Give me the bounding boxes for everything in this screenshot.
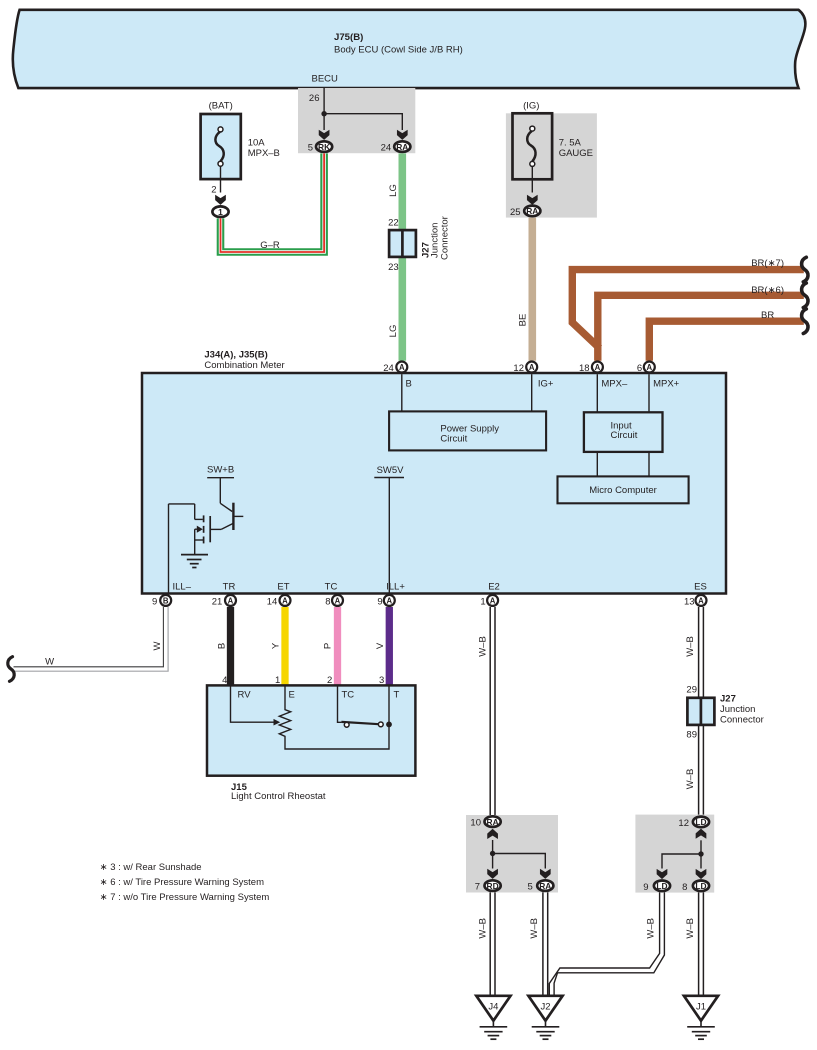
svg-text:10A: 10A: [248, 138, 266, 149]
connector LD 8: [693, 881, 709, 892]
pin 7 label: [475, 882, 480, 893]
wire source to ground: [194, 529, 196, 554]
label Body ECU (Cowl Side J/B RH): [334, 45, 463, 56]
label LG upper: [388, 184, 399, 197]
node ET label: [277, 582, 289, 593]
label Power Supply Circuit: [440, 424, 499, 445]
pin 23 label: [388, 262, 399, 273]
break squiggle BR(*7): [802, 257, 808, 282]
wire W-B from ES upper: [699, 607, 704, 698]
connector RD 7: [485, 880, 501, 891]
junction dot: [321, 111, 326, 116]
pin 13 A: [696, 595, 707, 606]
wire LG: [398, 153, 406, 360]
mosfet Q2 body arrow: [195, 526, 203, 533]
svg-text:6: 6: [637, 363, 642, 374]
pin 4 label: [222, 675, 227, 686]
svg-text:24: 24: [383, 363, 394, 374]
svg-text:TR: TR: [223, 582, 236, 593]
pin 18 meter label: [579, 363, 590, 374]
svg-text:W–B: W–B: [685, 636, 696, 657]
wire W: [14, 607, 169, 671]
svg-text:A: A: [386, 596, 392, 605]
svg-text:Body ECU (Cowl Side J/B RH): Body ECU (Cowl Side J/B RH): [334, 45, 463, 56]
svg-text:J34(A), J35(B): J34(A), J35(B): [204, 349, 267, 360]
wire collector: [220, 477, 232, 512]
svg-text:BR(∗6): BR(∗6): [751, 285, 784, 296]
ground internal: [181, 555, 208, 568]
pin 8b label: [682, 882, 687, 893]
wire T internal: [388, 685, 390, 724]
svg-text:Connector: Connector: [720, 714, 764, 725]
fuse element IG: [527, 126, 535, 166]
wire ILL-: [168, 504, 170, 594]
note *3: [100, 862, 202, 873]
wire RA10 to dot: [492, 840, 494, 869]
svg-text:1: 1: [218, 207, 223, 217]
svg-text:5: 5: [308, 143, 313, 154]
break squiggle BR(*6): [802, 283, 808, 308]
mosfet Q2 drain stub: [195, 504, 203, 520]
pin 1 A: [487, 595, 498, 606]
mosfet Q2 source stub: [195, 539, 204, 541]
svg-text:LG: LG: [388, 325, 399, 338]
wire IG+ to power supply: [531, 374, 533, 411]
SW5V rail: [374, 477, 404, 479]
pin 14 A: [280, 595, 291, 606]
svg-text:Combination Meter: Combination Meter: [204, 360, 284, 371]
wire branch to RA 5: [493, 854, 546, 869]
svg-text:B: B: [406, 378, 412, 389]
svg-text:W–B: W–B: [478, 918, 489, 939]
label Combination Meter: [204, 360, 284, 371]
svg-text:1: 1: [480, 596, 485, 607]
label W-B j1: [685, 918, 696, 939]
arrow into RK: [319, 130, 330, 140]
pin 1 J15 label: [275, 675, 280, 686]
ground J2: [528, 996, 562, 1039]
svg-text:RD: RD: [487, 881, 499, 891]
svg-text:8: 8: [682, 882, 687, 893]
svg-text:A: A: [399, 363, 405, 372]
label G-R: [260, 240, 280, 251]
pin 9b label: [377, 596, 382, 607]
pin 18 A: [592, 362, 603, 373]
pin 26: [309, 93, 320, 104]
svg-text:12: 12: [513, 363, 524, 374]
pin 21 A: [225, 595, 236, 606]
svg-text:IG+: IG+: [538, 378, 554, 389]
pin 21 label: [212, 596, 223, 607]
svg-text:ILL–: ILL–: [173, 582, 192, 593]
pin 14 label: [267, 596, 278, 607]
svg-text:BR: BR: [761, 310, 774, 321]
pin 9c label: [643, 882, 648, 893]
fuse element: [215, 127, 223, 166]
break squiggle W: [8, 657, 14, 682]
svg-text:Circuit: Circuit: [440, 434, 467, 445]
wire BE: [528, 218, 536, 361]
svg-text:MPX–: MPX–: [601, 378, 628, 389]
label J27: [421, 242, 432, 258]
arrow into connector 1: [215, 195, 226, 205]
wire B to power supply: [401, 374, 403, 411]
label W horizontal: [45, 656, 54, 667]
label (IG): [523, 101, 539, 112]
micro computer box: [558, 476, 689, 503]
arrow into RA 25: [527, 195, 538, 205]
label W vertical: [152, 641, 163, 650]
label BR: [761, 310, 774, 321]
wire B black: [227, 607, 234, 685]
label W-B es2: [685, 769, 696, 790]
svg-text:RA: RA: [526, 206, 538, 216]
wire ILL- to mosfet: [169, 503, 195, 505]
pin 24 label: [381, 143, 392, 154]
svg-text:W–B: W–B: [685, 918, 696, 939]
svg-text:9: 9: [377, 596, 382, 607]
svg-text:Y: Y: [270, 642, 281, 649]
svg-text:Circuit: Circuit: [611, 430, 638, 441]
pin 2 label: [211, 185, 216, 196]
pin 89 label: [686, 730, 697, 741]
node ES label: [694, 582, 707, 593]
label Input Circuit: [611, 421, 638, 442]
svg-text:W: W: [45, 656, 54, 667]
node TR label: [223, 582, 236, 593]
wire RV internal: [231, 685, 274, 722]
wire BR(*7): [572, 270, 804, 349]
connector 1: [212, 206, 228, 217]
connector RA 25: [524, 206, 540, 217]
label V: [375, 642, 386, 649]
svg-text:GAUGE: GAUGE: [559, 148, 593, 159]
wire MPX- to input circuit: [596, 374, 598, 412]
label LG lower: [388, 325, 399, 338]
svg-text:W–B: W–B: [478, 636, 489, 657]
pin 10 label: [470, 818, 481, 829]
wire input to micro 2: [648, 452, 650, 477]
svg-text:W–B: W–B: [685, 769, 696, 790]
wire BR(*6): [598, 295, 804, 361]
pin 9 B: [160, 595, 171, 606]
junction dot T: [386, 722, 392, 728]
svg-text:J27: J27: [720, 694, 736, 705]
node E label: [289, 689, 295, 700]
connector banner J75(B) Body ECU: [13, 10, 806, 88]
label Junction Connector right: [720, 704, 764, 725]
node B label: [406, 378, 412, 389]
svg-text:LD: LD: [695, 881, 706, 891]
label Light Control Rheostat: [231, 791, 326, 802]
svg-text:A: A: [595, 363, 601, 372]
svg-text:LD: LD: [695, 817, 706, 827]
pin 1 label: [480, 596, 485, 607]
svg-text:5: 5: [528, 882, 533, 893]
svg-text:B: B: [163, 596, 169, 605]
break squiggle BR: [802, 309, 808, 334]
svg-text:∗ 6 : w/ Tire Pressure Warning: ∗ 6 : w/ Tire Pressure Warning System: [100, 877, 264, 888]
svg-text:Micro Computer: Micro Computer: [589, 485, 657, 496]
svg-text:J4: J4: [488, 1002, 498, 1013]
svg-text:2: 2: [211, 185, 216, 196]
label 7.5A GAUGE: [559, 138, 593, 160]
pin 12 A: [526, 362, 537, 373]
connector RK: [316, 141, 332, 152]
svg-text:A: A: [698, 596, 704, 605]
svg-text:LG: LG: [388, 184, 399, 197]
arrow into RA 5: [540, 869, 551, 879]
svg-text:7. 5A: 7. 5A: [559, 138, 582, 149]
connector RA 10: [485, 816, 501, 827]
transistor Q1 base lead: [233, 515, 243, 517]
wire LD12 to dot: [700, 840, 702, 868]
svg-text:T: T: [394, 689, 400, 700]
svg-text:(BAT): (BAT): [209, 101, 233, 112]
svg-text:10: 10: [470, 818, 481, 829]
wire fuse IG down: [531, 167, 533, 193]
label BE: [517, 314, 528, 327]
pin 24 meter label: [383, 363, 394, 374]
pin 5b label: [528, 882, 533, 893]
label Y: [270, 642, 281, 649]
connector RA: [394, 141, 410, 152]
svg-text:Connector: Connector: [440, 216, 451, 260]
svg-text:RA: RA: [396, 142, 408, 152]
svg-text:ET: ET: [277, 582, 289, 593]
rheostat wiper arrow: [274, 719, 281, 726]
svg-text:P: P: [323, 643, 334, 649]
svg-text:E: E: [289, 689, 295, 700]
svg-text:V: V: [375, 642, 386, 649]
svg-text:9: 9: [643, 882, 648, 893]
resistor rheostat: [279, 685, 389, 749]
arrow into LD 9: [657, 869, 668, 879]
svg-text:9: 9: [152, 596, 157, 607]
arrow up into LD 12: [696, 829, 707, 839]
svg-text:TC: TC: [342, 689, 355, 700]
pin 8 label: [325, 596, 330, 607]
svg-text:Light Control Rheostat: Light Control Rheostat: [231, 791, 326, 802]
wire P pink: [334, 607, 341, 685]
wire W-B from ES lower: [699, 725, 704, 838]
pin 25 label: [510, 207, 521, 218]
svg-text:B: B: [216, 643, 227, 649]
wire W-B LD8 to J1: [699, 892, 704, 996]
node SW+B: [207, 464, 234, 475]
wire W-B LD9 to J2 (jog): [549, 892, 664, 996]
svg-text:SW5V: SW5V: [377, 465, 405, 476]
label 10A MPX-B: [248, 138, 280, 160]
node MPX+ label: [653, 378, 680, 389]
wire BR: [649, 321, 804, 361]
wire G-R (green/red): [221, 153, 325, 252]
pin 2 label: [327, 675, 332, 686]
pin 29 label: [686, 684, 697, 695]
svg-text:A: A: [529, 363, 535, 372]
svg-text:ILL+: ILL+: [386, 582, 405, 593]
wire SW5V to ILL+: [388, 478, 390, 595]
svg-text:J1: J1: [696, 1002, 706, 1013]
svg-text:A: A: [335, 596, 341, 605]
ground J1: [684, 996, 718, 1039]
input circuit box: [584, 412, 663, 452]
svg-text:RK: RK: [318, 142, 330, 152]
node IG+ label: [538, 378, 554, 389]
svg-text:RA: RA: [539, 881, 551, 891]
svg-text:A: A: [282, 596, 288, 605]
svg-text:A: A: [490, 596, 496, 605]
svg-text:RV: RV: [238, 689, 252, 700]
svg-text:RA: RA: [487, 817, 499, 827]
pin 9 label: [152, 596, 157, 607]
junction block (gray) pins 5/24: [298, 88, 415, 153]
power supply circuit box: [389, 411, 546, 450]
arrow into RD 7: [487, 869, 498, 879]
label J75(B): [334, 32, 363, 43]
svg-text:8: 8: [325, 596, 330, 607]
transistor Q1 emitter: [211, 523, 234, 529]
note *7: [100, 892, 270, 903]
pin 6 A: [644, 362, 655, 373]
svg-text:26: 26: [309, 93, 320, 104]
label J15: [231, 782, 248, 793]
fuse 7.5A GAUGE box: [513, 113, 553, 179]
svg-text:7: 7: [475, 882, 480, 893]
wire MPX+ to input circuit: [648, 374, 650, 412]
note *6: [100, 877, 264, 888]
node TC label: [325, 582, 338, 593]
fuse 10A MPX-B box: [201, 114, 241, 179]
pin 6 meter label: [637, 363, 642, 374]
wire W-B RD7 to J4: [490, 892, 495, 996]
svg-text:MPX+: MPX+: [653, 378, 680, 389]
svg-text:BECU: BECU: [311, 74, 338, 85]
svg-text:12: 12: [678, 818, 689, 829]
junction connector J27 (29/89): [687, 698, 714, 725]
svg-text:MPX–B: MPX–B: [248, 148, 280, 159]
svg-text:22: 22: [388, 217, 399, 228]
svg-text:A: A: [646, 363, 652, 372]
label BR(*6): [751, 285, 784, 296]
pin 12b label: [678, 818, 689, 829]
node RV label: [238, 689, 252, 700]
svg-text:W: W: [152, 641, 163, 650]
node T label: [394, 689, 400, 700]
node BECU: [311, 74, 338, 85]
svg-text:BE: BE: [517, 314, 528, 327]
svg-text:J75(B): J75(B): [334, 32, 363, 43]
node SW5V: [377, 465, 405, 476]
label Junction Connector: [430, 216, 451, 260]
label B: [216, 643, 227, 649]
connector RA 5: [537, 880, 553, 891]
wire fuse to connector 1: [220, 167, 222, 193]
connector block gray left: [466, 815, 558, 893]
label J27 right: [720, 694, 736, 705]
pin 13 label: [684, 596, 695, 607]
svg-text:21: 21: [212, 596, 223, 607]
junction connector J27 (22/23): [389, 230, 416, 257]
svg-text:SW+B: SW+B: [207, 464, 234, 475]
label Micro Computer: [589, 485, 657, 496]
svg-text:BR(∗7): BR(∗7): [751, 258, 784, 269]
pin 24 A: [396, 362, 407, 373]
node ILL- label: [173, 582, 192, 593]
label W-B es: [685, 636, 696, 657]
label (BAT): [209, 101, 233, 112]
svg-text:∗ 3 : w/ Rear Sunshade: ∗ 3 : w/ Rear Sunshade: [100, 862, 202, 873]
svg-text:A: A: [228, 596, 234, 605]
mosfet Q2 channel segments: [203, 515, 205, 543]
label W-B ld9: [646, 918, 657, 939]
pin 12 meter label: [513, 363, 524, 374]
pin 5 label: [308, 143, 313, 154]
pin 8 A: [332, 595, 343, 606]
wire Y yellow: [281, 607, 288, 685]
junction dot right block: [698, 851, 703, 856]
wire input to micro 1: [596, 452, 598, 477]
junction dot left block: [490, 851, 495, 856]
svg-text:W–B: W–B: [646, 918, 657, 939]
node MPX- label: [601, 378, 628, 389]
connector LD 12: [693, 817, 709, 828]
arrow up into RA 10: [487, 829, 498, 839]
wire branch to LD 9: [662, 854, 701, 869]
svg-text:ES: ES: [694, 582, 707, 593]
wire W-B RA5 to J2: [543, 892, 548, 996]
pin 3 label: [379, 675, 384, 686]
connector block gray right: [635, 815, 714, 893]
transistor Q1 base bar: [232, 503, 234, 530]
svg-text:J2: J2: [540, 1002, 550, 1013]
svg-text:13: 13: [684, 596, 695, 607]
svg-text:∗ 7 : w/o Tire Pressure Warnin: ∗ 7 : w/o Tire Pressure Warning System: [100, 892, 270, 903]
svg-text:W–B: W–B: [529, 918, 540, 939]
svg-text:LD: LD: [656, 881, 667, 891]
svg-text:G–R: G–R: [260, 240, 280, 251]
label W-B j2: [529, 918, 540, 939]
svg-text:TC: TC: [325, 582, 338, 593]
SW+B rail: [207, 477, 234, 479]
mosfet Q2 gate bar: [209, 516, 211, 542]
connector LD 9: [654, 881, 670, 892]
ground J4: [476, 996, 510, 1039]
svg-text:23: 23: [388, 262, 399, 273]
node TC J15 label: [342, 689, 355, 700]
switch TC: [338, 685, 384, 727]
wire BECU down: [323, 88, 325, 130]
label J34(A), J35(B): [204, 349, 267, 360]
svg-text:25: 25: [510, 207, 521, 218]
svg-text:89: 89: [686, 730, 697, 741]
svg-text:E2: E2: [488, 582, 500, 593]
svg-text:29: 29: [686, 684, 697, 695]
fuse block (gray) IG: [506, 113, 597, 217]
pin 22 label: [388, 217, 399, 228]
label P: [323, 643, 334, 649]
label W-B e2: [478, 636, 489, 657]
wire V violet: [386, 607, 393, 685]
wire branch to pin 24: [324, 114, 402, 130]
svg-text:(IG): (IG): [523, 101, 539, 112]
arrow into RA: [397, 130, 408, 140]
wire W-B from E2: [490, 607, 495, 838]
label W-B j4: [478, 918, 489, 939]
pin 9b A: [384, 595, 395, 606]
light control rheostat J15 box: [207, 685, 415, 775]
combination meter J34/J35 box: [142, 373, 726, 594]
